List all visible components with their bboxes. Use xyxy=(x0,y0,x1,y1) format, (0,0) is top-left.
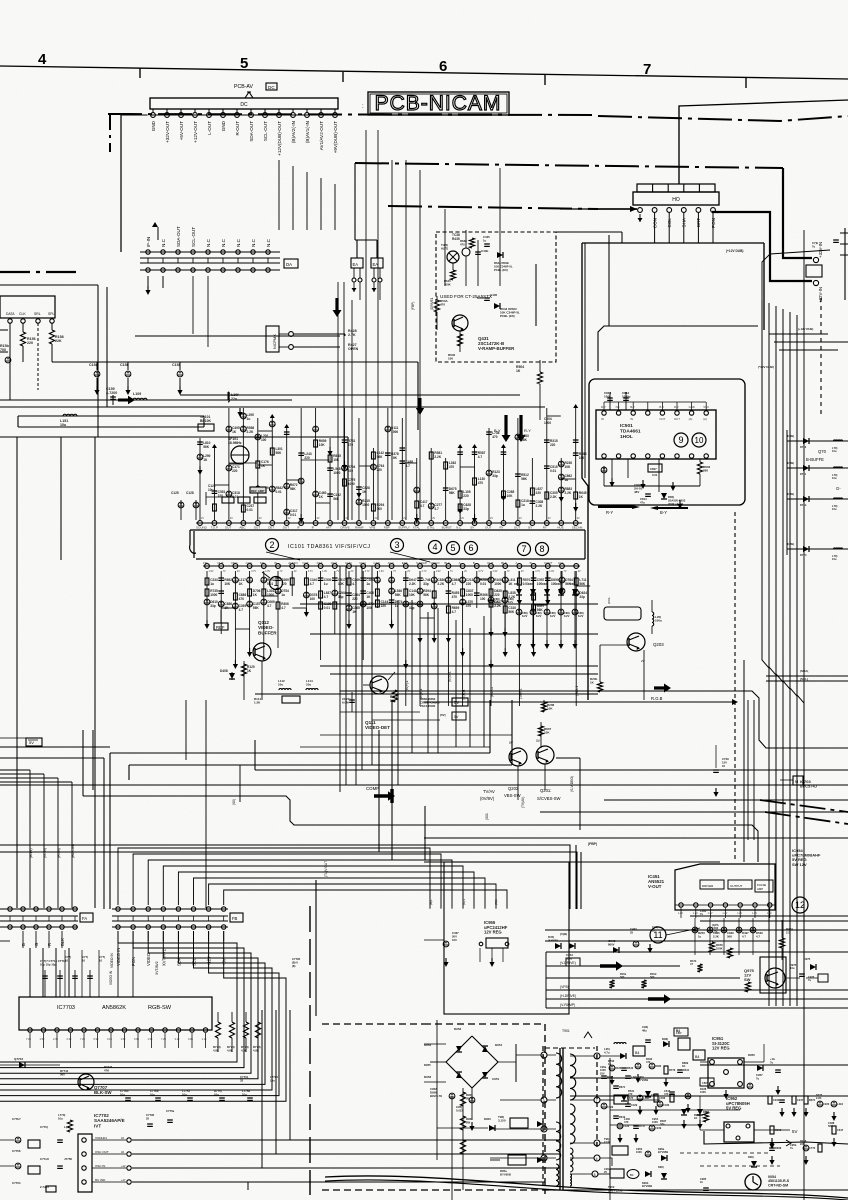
svg-text:VIDEO-DET: VIDEO-DET xyxy=(365,725,390,730)
svg-text:1.5v: 1.5v xyxy=(148,1037,154,1041)
svg-text:NC: NC xyxy=(616,405,620,409)
svg-text:IC501: IC501 xyxy=(620,423,633,429)
svg-text:C77b7: C77b7 xyxy=(12,1117,21,1121)
svg-text:2.2K: 2.2K xyxy=(536,504,543,508)
svg-text:C951: C951 xyxy=(492,1077,500,1081)
svg-text:(S-VIDEO): (S-VIDEO) xyxy=(570,776,574,792)
svg-text:10u: 10u xyxy=(832,507,837,511)
svg-text:A: A xyxy=(515,561,517,565)
svg-text:PCBL (E6): PCBL (E6) xyxy=(494,268,508,272)
svg-text:IN: IN xyxy=(630,417,633,421)
svg-text:D86): D86) xyxy=(514,582,520,586)
svg-text:56K: 56K xyxy=(521,477,528,481)
svg-text:AV1/AV2-OUT: AV1/AV2-OUT xyxy=(319,121,324,150)
svg-text:4.7: 4.7 xyxy=(406,464,411,468)
svg-text:1000: 1000 xyxy=(348,482,355,486)
svg-text:2V: 2V xyxy=(407,570,410,573)
svg-text:XTAL: XTAL xyxy=(413,525,421,529)
svg-text:100: 100 xyxy=(452,938,457,942)
svg-text:R-Y: R-Y xyxy=(601,405,606,409)
svg-text:33p: 33p xyxy=(492,474,498,478)
svg-text:N.C: N.C xyxy=(161,238,166,247)
svg-text:1.9V: 1.9V xyxy=(436,570,441,573)
svg-text:5V: 5V xyxy=(29,740,34,745)
svg-text:R.G.B: R.G.B xyxy=(651,696,663,701)
svg-text:L182: L182 xyxy=(643,1096,649,1100)
svg-text:1K: 1K xyxy=(232,430,237,434)
svg-text:SCL-OUT: SCL-OUT xyxy=(191,227,196,247)
svg-text:BYV95B: BYV95B xyxy=(658,1150,668,1154)
svg-text:BLK: BLK xyxy=(60,938,65,946)
svg-text:GND: GND xyxy=(151,120,156,131)
svg-text:XVT/AV2: XVT/AV2 xyxy=(155,961,159,975)
svg-text:0.9v: 0.9v xyxy=(134,1037,140,1041)
svg-text:B-Y: B-Y xyxy=(630,405,635,409)
svg-text:NICPMX: NICPMX xyxy=(273,334,277,349)
svg-text:(B-IN): (B-IN) xyxy=(29,848,33,858)
svg-text:AMP: AMP xyxy=(757,887,763,891)
svg-text:560: 560 xyxy=(620,975,625,979)
svg-text:XVT/AV2: XVT/AV2 xyxy=(161,948,166,966)
svg-text:100: 100 xyxy=(310,597,316,601)
svg-text:Q70: Q70 xyxy=(818,449,827,454)
svg-text:EA: EA xyxy=(353,262,359,267)
svg-text:IC101 TDA8361 VIF/SIF/VCJ: IC101 TDA8361 VIF/SIF/VCJ xyxy=(288,544,371,550)
svg-text:2V: 2V xyxy=(641,659,645,663)
svg-text:10u: 10u xyxy=(270,1078,275,1082)
svg-text:R674: R674 xyxy=(809,1098,816,1102)
svg-text:1.5K: 1.5K xyxy=(254,701,261,705)
svg-text:Q203: Q203 xyxy=(653,642,664,647)
svg-text:2V: 2V xyxy=(461,517,464,520)
svg-text:1.5v: 1.5v xyxy=(121,1037,127,1041)
svg-text:C239: C239 xyxy=(655,1126,662,1130)
svg-text:D903: D903 xyxy=(484,1117,491,1121)
svg-text:2H9038: 2H9038 xyxy=(548,938,558,942)
svg-text:SDA-OUT: SDA-OUT xyxy=(249,121,254,142)
svg-text:T.G.P: T.G.P xyxy=(210,525,218,529)
svg-text:5W: 5W xyxy=(466,1096,471,1100)
svg-text:C770): C770) xyxy=(40,1125,48,1129)
svg-text:VIDEO: VIDEO xyxy=(146,952,151,966)
svg-text:10u: 10u xyxy=(306,683,311,687)
svg-text:2.2K: 2.2K xyxy=(437,582,444,586)
svg-text:FA: FA xyxy=(82,916,87,921)
svg-text:4: 4 xyxy=(432,542,437,552)
svg-text:V-OUT: V-OUT xyxy=(648,884,662,889)
svg-text:470: 470 xyxy=(449,465,455,469)
svg-text:4-7200: 4-7200 xyxy=(106,391,117,395)
svg-text:COL: COL xyxy=(558,561,565,565)
svg-text:4.7: 4.7 xyxy=(310,582,315,586)
svg-text:33p: 33p xyxy=(210,604,216,608)
svg-text:2V: 2V xyxy=(346,517,349,520)
svg-text:1000: 1000 xyxy=(210,593,217,597)
svg-text:33p: 33p xyxy=(463,507,469,511)
svg-text:+5V: +5V xyxy=(222,958,227,966)
svg-text:OUTPUT: OUTPUT xyxy=(730,884,743,888)
svg-text:(G-IN): (G-IN) xyxy=(43,848,47,858)
svg-text:8.2V: 8.2V xyxy=(550,614,556,618)
svg-text:8.2V: 8.2V xyxy=(564,614,570,618)
svg-text:B-Y: B-Y xyxy=(660,510,667,515)
svg-text:SPL: SPL xyxy=(48,312,55,316)
svg-text:DRIVER: DRIVER xyxy=(702,884,714,888)
svg-text:OUT: OUT xyxy=(254,525,260,529)
svg-text:D408: D408 xyxy=(220,669,228,673)
svg-text:FBP: FBP xyxy=(384,525,390,529)
svg-text:(R)1: (R)1 xyxy=(494,899,498,905)
svg-text:R-OUT: R-OUT xyxy=(235,121,240,136)
svg-text:3.1v: 3.1v xyxy=(175,1037,181,1041)
svg-text:1u: 1u xyxy=(281,593,285,597)
svg-text:2V: 2V xyxy=(230,517,233,520)
svg-text:VIDEO IN: VIDEO IN xyxy=(110,953,114,968)
svg-text:0.01: 0.01 xyxy=(290,513,296,517)
svg-text:SIF: SIF xyxy=(260,561,265,565)
svg-text:10: 10 xyxy=(82,958,86,962)
svg-text:1K: 1K xyxy=(682,1064,685,1068)
svg-text:108k): 108k) xyxy=(787,542,794,546)
svg-text:7V: 7V xyxy=(223,570,226,573)
svg-text:D952: D952 xyxy=(424,1075,432,1079)
svg-text:BLK-SW: BLK-SW xyxy=(94,1090,112,1095)
svg-text:N.C: N.C xyxy=(236,238,241,247)
svg-text:56K: 56K xyxy=(828,1124,833,1128)
svg-text:(SDA(: (SDA( xyxy=(800,669,808,673)
svg-text:OUT: OUT xyxy=(674,417,680,421)
svg-text:100K: 100K xyxy=(716,946,723,950)
svg-text:10K: 10K xyxy=(224,582,231,586)
svg-text:GND: GND xyxy=(689,405,695,409)
svg-text:1.9V: 1.9V xyxy=(322,570,327,573)
svg-text:IVT: IVT xyxy=(94,1123,101,1128)
svg-text:220: 220 xyxy=(304,456,310,460)
svg-text:7u: 7u xyxy=(812,244,816,248)
svg-text:0.01: 0.01 xyxy=(480,582,486,586)
svg-text:220: 220 xyxy=(281,582,287,586)
svg-text:C123: C123 xyxy=(623,1124,630,1128)
svg-text:0.01: 0.01 xyxy=(652,473,658,477)
svg-text:PCBL (E6): PCBL (E6) xyxy=(500,314,515,318)
svg-text:SDA-OUT: SDA-OUT xyxy=(176,226,181,247)
svg-text:1u: 1u xyxy=(247,417,251,421)
svg-text:1.9V: 1.9V xyxy=(493,570,498,573)
svg-text:1.2V: 1.2V xyxy=(678,912,683,915)
svg-text:4.8K: 4.8K xyxy=(213,1048,219,1052)
svg-text:4.7V: 4.7V xyxy=(251,570,256,573)
svg-text:220: 220 xyxy=(27,341,33,345)
svg-text:C7704: C7704 xyxy=(12,1181,21,1185)
svg-text:C247: C247 xyxy=(797,1098,804,1102)
svg-text:10: 10 xyxy=(695,436,704,445)
svg-text:CRT-ND-SM: CRT-ND-SM xyxy=(768,1183,788,1187)
svg-text:56K: 56K xyxy=(333,497,340,501)
svg-text:(FBP): (FBP) xyxy=(411,302,415,310)
svg-text:2.2K: 2.2K xyxy=(816,1096,822,1100)
svg-text:AUDIO: AUDIO xyxy=(288,561,298,565)
svg-text:2.2K: 2.2K xyxy=(434,455,441,459)
svg-text:0.01: 0.01 xyxy=(275,490,281,494)
svg-text:1.5v: 1.5v xyxy=(40,1037,46,1041)
svg-text:5: 5 xyxy=(450,543,455,553)
svg-text:5V: 5V xyxy=(454,715,459,719)
svg-text:22u: 22u xyxy=(231,397,237,401)
svg-text:OPEN: OPEN xyxy=(348,347,359,351)
svg-text:VIDEO IN: VIDEO IN xyxy=(109,970,113,985)
svg-text:D713: D713 xyxy=(800,445,807,449)
svg-text:V-RAMP-BUFFER: V-RAMP-BUFFER xyxy=(478,346,515,351)
svg-text:56K: 56K xyxy=(253,606,260,610)
svg-text:B4: B4 xyxy=(695,1055,699,1059)
svg-text:+12V(DUB)-OUT: +12V(DUB)-OUT xyxy=(277,121,282,156)
svg-text:BP10K: BP10K xyxy=(200,419,211,423)
svg-text:D975: D975 xyxy=(804,957,811,961)
svg-text:3.1v: 3.1v xyxy=(107,1037,113,1041)
svg-text:4.7: 4.7 xyxy=(742,934,746,938)
svg-text:SECAM: SECAM xyxy=(572,525,583,529)
svg-text:B: B xyxy=(21,943,26,946)
svg-text:C375: C375 xyxy=(627,1096,634,1100)
svg-text:25: 25 xyxy=(146,1116,150,1120)
svg-text:4.7: 4.7 xyxy=(420,504,425,508)
svg-text:2V: 2V xyxy=(317,517,320,520)
svg-text:470: 470 xyxy=(624,1120,629,1124)
svg-text:Q201:: Q201: xyxy=(540,788,551,793)
svg-text:(G)1: (G)1 xyxy=(462,899,466,905)
svg-text:7V: 7V xyxy=(564,570,567,573)
svg-text:2W: 2W xyxy=(466,1120,471,1124)
svg-text:280: 280 xyxy=(703,469,708,473)
svg-text:OUT: OUT xyxy=(302,561,309,565)
svg-text:D96): D96) xyxy=(748,1155,754,1159)
svg-text:B-BUFFE: B-BUFFE xyxy=(806,457,824,462)
svg-text:+12: +12 xyxy=(121,1164,126,1168)
svg-text:10u: 10u xyxy=(832,476,837,480)
svg-text:VCC: VCC xyxy=(703,405,709,409)
svg-text:1u: 1u xyxy=(324,582,328,586)
svg-text:470: 470 xyxy=(664,1092,669,1096)
svg-text:R671: R671 xyxy=(619,1085,626,1089)
svg-text:R882: R882 xyxy=(703,1110,710,1114)
svg-text:C807: C807 xyxy=(650,467,657,471)
svg-text:BLK: BLK xyxy=(444,561,450,565)
svg-text:(+12V DUB): (+12V DUB) xyxy=(798,327,813,331)
svg-text:EA: EA xyxy=(373,262,379,267)
svg-text:470: 470 xyxy=(440,303,445,307)
svg-text:33p: 33p xyxy=(660,1122,665,1126)
svg-text:DEC: DEC xyxy=(231,561,238,565)
svg-text:R-Y: R-Y xyxy=(524,428,531,433)
svg-text:TV/AV: TV/AV xyxy=(483,789,495,794)
svg-text:(5V): (5V) xyxy=(440,713,446,717)
svg-text:AN5862K: AN5862K xyxy=(102,1005,126,1011)
svg-text:1000: 1000 xyxy=(700,1090,706,1094)
svg-text:33p: 33p xyxy=(423,582,429,586)
svg-text:Q202: Q202 xyxy=(508,786,519,791)
svg-text:RC IND: RC IND xyxy=(95,1178,106,1182)
svg-text:3,150: 3,150 xyxy=(498,1119,506,1123)
svg-text:R776: R776 xyxy=(669,1068,676,1072)
svg-text:12: 12 xyxy=(795,900,805,910)
svg-text:PCB-AV: PCB-AV xyxy=(234,84,253,90)
svg-text:HO: HO xyxy=(672,197,680,203)
svg-text:47K: 47K xyxy=(104,1068,109,1072)
svg-text:(DRIVE1: (DRIVE1 xyxy=(430,297,434,310)
svg-text:(A): (A) xyxy=(703,417,707,421)
svg-text:J7750: J7750 xyxy=(64,1157,72,1161)
svg-text:2V: 2V xyxy=(464,570,467,573)
svg-text:7.2v: 7.2v xyxy=(26,1037,32,1041)
svg-text:GND: GND xyxy=(345,561,353,565)
svg-text:2V: 2V xyxy=(288,517,291,520)
svg-text:OUT: OUT xyxy=(283,525,290,529)
svg-text:12V REG: 12V REG xyxy=(712,1046,730,1051)
svg-text:1.2V: 1.2V xyxy=(737,912,742,915)
svg-text:1.2V: 1.2V xyxy=(752,912,757,915)
svg-text:A: A xyxy=(459,561,461,565)
svg-text:BLK: BLK xyxy=(501,561,507,565)
svg-text:BURST: BURST xyxy=(442,525,452,529)
svg-text:470: 470 xyxy=(348,443,354,447)
svg-text:IF: IF xyxy=(297,525,300,529)
svg-text:56K: 56K xyxy=(521,438,528,442)
svg-text:C435: C435 xyxy=(490,293,498,297)
svg-text:108k): 108k) xyxy=(787,461,794,465)
svg-text:7V: 7V xyxy=(280,570,283,573)
svg-text:10K: 10K xyxy=(544,731,550,735)
svg-text:1K: 1K xyxy=(261,464,266,468)
svg-text:C158: C158 xyxy=(172,363,181,367)
svg-text:4.7: 4.7 xyxy=(267,604,272,608)
svg-text:56K: 56K xyxy=(203,445,210,449)
svg-text:7V: 7V xyxy=(450,570,453,573)
svg-text:D71b: D71b xyxy=(800,503,807,507)
svg-text:0.022: 0.022 xyxy=(456,1108,463,1112)
svg-text:(R-IN): (R-IN) xyxy=(57,848,61,858)
svg-text:25: 25 xyxy=(630,930,634,934)
svg-text:1K: 1K xyxy=(362,490,367,494)
svg-text:4.7: 4.7 xyxy=(756,934,760,938)
svg-text:XODH01: XODH01 xyxy=(95,1136,107,1140)
svg-text:C15a: C15a xyxy=(89,363,99,367)
svg-text:1u: 1u xyxy=(564,478,568,482)
svg-text:470: 470 xyxy=(646,1060,651,1064)
svg-text:1.2V: 1.2V xyxy=(767,912,772,915)
svg-text:100: 100 xyxy=(261,438,267,442)
svg-text:2V: 2V xyxy=(548,517,551,520)
svg-text:BYV95B: BYV95B xyxy=(500,1172,511,1176)
svg-text:VIDEO: VIDEO xyxy=(430,561,440,565)
svg-text:8.2V: 8.2V xyxy=(522,614,528,618)
svg-text:(B)1: (B)1 xyxy=(429,899,433,905)
svg-text:(B)AV1(-IN: (B)AV1(-IN xyxy=(305,121,310,143)
svg-text:1K: 1K xyxy=(319,495,324,499)
svg-text:560: 560 xyxy=(650,975,655,979)
svg-text:(TU)V OUT: (TU)V OUT xyxy=(324,861,328,877)
svg-text:(+12V DUB): (+12V DUB) xyxy=(726,249,743,253)
svg-text:RY: RY xyxy=(499,525,503,529)
svg-text:1.9V: 1.9V xyxy=(379,570,384,573)
svg-text:L-OUT: L-OUT xyxy=(207,121,212,135)
svg-text:10K: 10K xyxy=(507,494,514,498)
svg-text:10: 10 xyxy=(99,958,103,962)
svg-text:D86): D86) xyxy=(556,582,562,586)
svg-text:1K: 1K xyxy=(516,369,521,373)
svg-text:220: 220 xyxy=(466,582,472,586)
svg-text:4.7V: 4.7V xyxy=(422,570,427,573)
svg-text:R643: R643 xyxy=(627,1066,634,1070)
svg-text:220: 220 xyxy=(463,494,469,498)
svg-text:2.2K: 2.2K xyxy=(564,491,571,495)
svg-text:B: B xyxy=(530,561,532,565)
svg-text:IC7703: IC7703 xyxy=(57,1005,75,1011)
svg-text:AFT: AFT xyxy=(326,525,332,529)
svg-text:CONT: CONT xyxy=(544,561,553,565)
svg-text:S/CVBS-SW: S/CVBS-SW xyxy=(537,796,561,801)
svg-text:10u: 10u xyxy=(60,423,66,427)
svg-text:FBP: FBP xyxy=(676,1031,682,1035)
svg-text:G-: G- xyxy=(836,486,841,491)
svg-text:1000: 1000 xyxy=(494,582,501,586)
svg-text:IN: IN xyxy=(601,417,604,421)
svg-text:RGB-SW: RGB-SW xyxy=(148,1005,172,1011)
svg-text:(*12V DUB): (*12V DUB) xyxy=(758,365,774,369)
svg-text:10: 10 xyxy=(722,764,726,768)
svg-text:7u: 7u xyxy=(808,978,811,982)
svg-text:(H-DRIVE): (H-DRIVE) xyxy=(560,994,576,998)
svg-text:9: 9 xyxy=(596,1055,598,1059)
svg-text:M: M xyxy=(795,779,798,784)
svg-text:1500: 1500 xyxy=(544,421,551,425)
svg-text:2V: 2V xyxy=(577,517,580,520)
svg-text:2: 2 xyxy=(269,540,274,550)
svg-text:9: 9 xyxy=(678,435,683,445)
svg-text:BYV95B: BYV95B xyxy=(642,1184,652,1188)
svg-text:2V: 2V xyxy=(237,570,240,573)
svg-text:RAMP: RAMP xyxy=(355,525,364,529)
svg-text:R-Y: R-Y xyxy=(606,510,613,515)
svg-text:D838: D838 xyxy=(775,1146,782,1150)
svg-text:DET: DET xyxy=(268,525,274,529)
svg-text:25V: 25V xyxy=(600,1071,605,1075)
svg-text:220: 220 xyxy=(377,468,383,472)
svg-text:(V-RAMP): (V-RAMP) xyxy=(560,1003,575,1007)
svg-text:1: 1 xyxy=(543,1054,545,1058)
svg-text:2V: 2V xyxy=(403,517,406,520)
svg-text:1u: 1u xyxy=(366,582,370,586)
svg-text:R482: R482 xyxy=(655,1064,662,1068)
svg-text:(FBP): (FBP) xyxy=(588,842,597,846)
svg-text:47u: 47u xyxy=(640,500,645,504)
svg-text:1K: 1K xyxy=(508,582,513,586)
svg-text:IF-IN: IF-IN xyxy=(146,237,151,247)
svg-text:0.01: 0.01 xyxy=(267,582,273,586)
svg-text:N.C: N.C xyxy=(251,238,256,247)
svg-text:(8): (8) xyxy=(292,964,295,968)
svg-text:10u: 10u xyxy=(208,488,214,492)
svg-text:OUT: OUT xyxy=(485,525,492,529)
svg-text:7V: 7V xyxy=(393,570,396,573)
svg-text:+12V: +12V xyxy=(207,956,212,966)
svg-text:REF AMP: REF AMP xyxy=(251,489,264,493)
svg-text:12V REG: 12V REG xyxy=(484,930,502,935)
svg-text:4.7V: 4.7V xyxy=(478,570,483,573)
svg-text:L394: L394 xyxy=(837,1102,843,1106)
svg-text:0.9v: 0.9v xyxy=(188,1037,194,1041)
svg-text:1.9V: 1.9V xyxy=(209,570,214,573)
svg-text:5: 5 xyxy=(240,55,248,72)
